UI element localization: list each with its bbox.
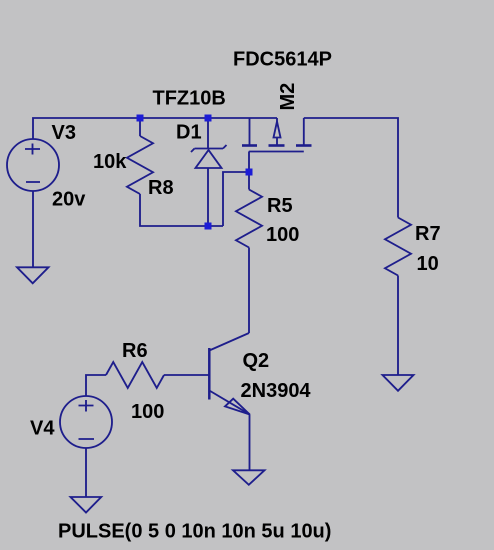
- wire top rail from V3 to M2 source: [33, 118, 277, 139]
- wire V4 bottom to ground: [85, 448, 87, 497]
- resistor R7: [385, 218, 411, 276]
- resistor R5: [236, 172, 262, 248]
- ground for V3: [17, 267, 49, 283]
- svg-text:R6: R6: [122, 340, 148, 362]
- wire V3 bottom to ground: [32, 191, 34, 267]
- svg-text:D1: D1: [176, 122, 202, 144]
- node junction D1 top: [205, 115, 212, 122]
- zener diode D1: [191, 118, 227, 226]
- svg-text:10k: 10k: [93, 151, 127, 173]
- node junction D1 bottom: [205, 223, 212, 230]
- svg-text:FDC5614P: FDC5614P: [233, 49, 332, 71]
- node junction gate: [246, 169, 253, 176]
- svg-text:V3: V3: [52, 122, 76, 144]
- svg-text:Q2: Q2: [243, 350, 270, 372]
- transistor Q2: [209, 333, 250, 470]
- svg-text:PULSE(0 5 0 10n 10n 5u 10u): PULSE(0 5 0 10n 10n 5u 10u): [58, 521, 331, 543]
- svg-text:V4: V4: [30, 418, 55, 440]
- svg-text:100: 100: [266, 224, 299, 246]
- svg-text:100: 100: [131, 401, 164, 423]
- ground for R7: [383, 375, 414, 391]
- voltage source V4: [60, 396, 112, 448]
- svg-text:M2: M2: [277, 83, 299, 111]
- wire M2 drain rail to R7: [304, 118, 398, 218]
- svg-text:10: 10: [417, 253, 439, 275]
- svg-text:R5: R5: [267, 195, 293, 217]
- svg-text:R8: R8: [148, 177, 174, 199]
- svg-text:20v: 20v: [52, 189, 86, 211]
- node junction R8 top: [137, 115, 144, 122]
- resistor R8: [127, 118, 153, 194]
- wire R8 bottom to D1 anode node: [140, 194, 223, 226]
- ground for Q2 emitter: [233, 470, 265, 485]
- svg-text:TFZ10B: TFZ10B: [153, 88, 226, 110]
- resistor R6: [106, 362, 164, 388]
- svg-text:2N3904: 2N3904: [241, 380, 312, 402]
- wire R5 bottom to Q2 collector: [248, 248, 250, 334]
- voltage source V3: [7, 139, 59, 191]
- mosfet M2: [242, 118, 312, 172]
- wire R6 to Q2 base: [164, 374, 209, 376]
- ground for V4: [71, 497, 102, 513]
- wire Z-bend to gate node: [223, 172, 249, 226]
- wire V4 top to R6: [86, 375, 106, 396]
- wire R7 bottom to ground: [397, 276, 399, 376]
- svg-text:R7: R7: [415, 223, 441, 245]
